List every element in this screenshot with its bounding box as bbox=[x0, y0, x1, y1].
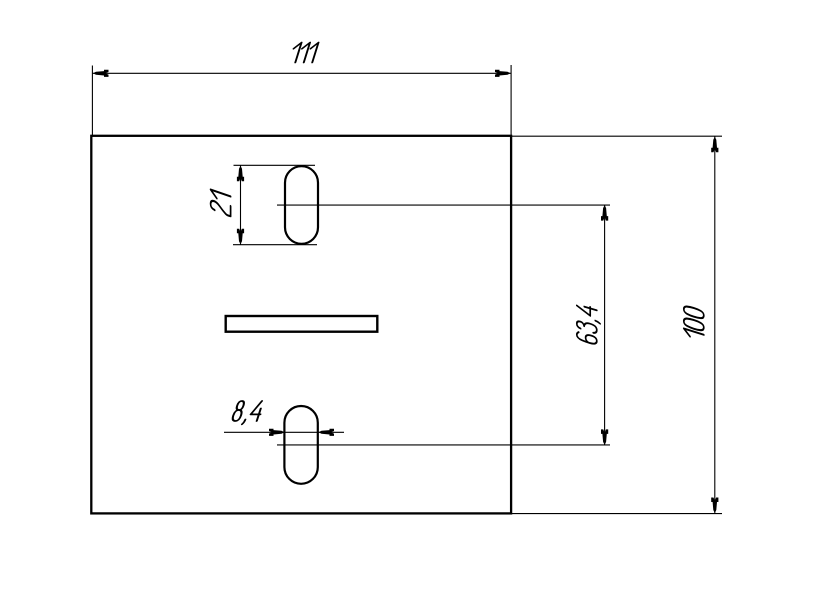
top slot bbox=[285, 166, 318, 244]
dimension 100 extension line bottom bbox=[512, 513, 722, 515]
middle slot bbox=[226, 316, 378, 332]
plate outline bbox=[91, 136, 511, 514]
dimension 8,4 label bbox=[230, 401, 264, 424]
top slot centerline bbox=[277, 204, 610, 206]
dimension 63,4 arrow bottom bbox=[601, 429, 608, 445]
dimension 111 extension line left bbox=[91, 66, 93, 136]
dimension 111 label bbox=[289, 43, 318, 63]
dimension 8,4 line bbox=[224, 431, 344, 433]
bottom slot bbox=[284, 406, 317, 484]
bottom slot centerline bbox=[277, 444, 610, 446]
dimension 111 arrow right bbox=[495, 70, 511, 77]
dimension 111 line bbox=[92, 72, 511, 74]
dimension 21 extension line top bbox=[234, 164, 316, 166]
dimension 100 label bbox=[684, 305, 704, 341]
dimension 111 arrow left bbox=[93, 70, 109, 77]
dimension 21 label bbox=[211, 190, 231, 217]
dimension 8,4 arrow left bbox=[269, 429, 285, 436]
dimension 21 arrow top bbox=[237, 166, 244, 182]
dimension 21 extension line bottom bbox=[233, 244, 317, 246]
dimension 63,4 line bbox=[604, 205, 606, 445]
dimension 63,4 arrow top bbox=[601, 205, 608, 221]
dimension 100 arrow bottom bbox=[711, 498, 718, 514]
dimension 100 line bbox=[714, 136, 716, 513]
dimension 111 extension line right bbox=[510, 65, 512, 136]
dimension 8,4 arrow right bbox=[319, 429, 335, 436]
dimension 63,4 label bbox=[577, 303, 600, 346]
dimension 21 line bbox=[240, 165, 242, 244]
dimension 100 extension line top bbox=[511, 135, 722, 137]
dimension 100 arrow top bbox=[711, 137, 718, 153]
dimension 21 arrow bottom bbox=[237, 229, 244, 245]
